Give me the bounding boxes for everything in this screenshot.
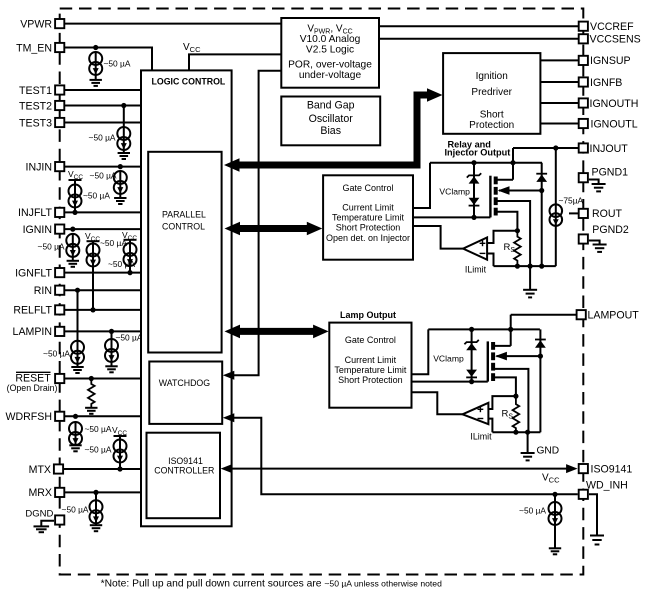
svg-text:(Open Drain): (Open Drain) xyxy=(7,383,58,393)
svg-text:VPWR: VPWR xyxy=(20,18,52,30)
transistor Q2 power MOSFET (lamp, with current-sense) xyxy=(487,341,489,381)
svg-text:VClamp: VClamp xyxy=(433,354,464,364)
svg-text:Short Protection: Short Protection xyxy=(336,223,401,233)
zener diode VClamp upper (lamp) xyxy=(471,329,473,381)
svg-text:RELFLT: RELFLT xyxy=(13,305,52,317)
svg-text:GND: GND xyxy=(537,446,560,457)
wire op-amp output feedback to Gate Control (lamp) xyxy=(412,392,463,414)
svg-text:ROUT: ROUT xyxy=(592,208,623,220)
pin RIN xyxy=(55,286,64,295)
svg-text:Current Limit: Current Limit xyxy=(345,355,397,365)
current source ~50uA (TEST2 pull-down) xyxy=(117,127,130,150)
svg-text:~50 µA: ~50 µA xyxy=(38,242,65,252)
wire TM_EN to LOGIC CONTROL top xyxy=(64,48,152,71)
pin LAMPIN xyxy=(55,327,64,336)
junction RELFLT pull-up xyxy=(90,307,95,312)
pin IGNFLT xyxy=(55,268,64,277)
junction source/ground (lamp) xyxy=(525,430,530,435)
wire IGNSUP xyxy=(540,59,578,61)
wire TEST2 xyxy=(64,105,141,107)
block ISO9141 CONTROLLER xyxy=(147,433,221,519)
svg-text:INJIN: INJIN xyxy=(26,161,52,173)
ground (TEST2 source) xyxy=(118,153,130,159)
junction body/diode (lamp) xyxy=(538,354,543,359)
op-amp ILimit comparator (lamp) xyxy=(463,403,489,424)
svg-text:Ignition: Ignition xyxy=(476,71,508,82)
ground (lamp output stage) xyxy=(521,453,535,460)
svg-text:Lamp Output: Lamp Output xyxy=(340,310,396,320)
svg-text:TEST2: TEST2 xyxy=(19,100,52,112)
pin VPWR xyxy=(55,19,64,28)
wire TEST1 xyxy=(64,89,141,91)
chip boundary (dashed border) xyxy=(60,9,584,575)
wire lamp Gate Control upper output to rail xyxy=(412,329,429,374)
svg-text:~50 µA: ~50 µA xyxy=(85,424,112,434)
wire IGNFLT xyxy=(64,272,149,274)
current source ~50uA (MTX pull-up) xyxy=(119,436,121,440)
junction WDRFSH pulldown xyxy=(73,414,78,419)
pin TEST3 xyxy=(55,118,64,127)
junction RESET pulldown xyxy=(89,376,94,381)
svg-text:~50 µA: ~50 µA xyxy=(89,133,116,143)
junction MRX pulldown xyxy=(93,490,98,495)
svg-text:Gate Control: Gate Control xyxy=(342,183,393,193)
svg-text:~50 µA: ~50 µA xyxy=(108,259,135,269)
wire LAMPIN xyxy=(64,330,149,332)
svg-text:TM_EN: TM_EN xyxy=(16,42,52,54)
svg-text:IGNSUP: IGNSUP xyxy=(590,55,631,67)
pin ROUT xyxy=(569,212,578,214)
wire op-amp + input to RS top (lamp) xyxy=(488,396,516,409)
svg-text:~50 µA: ~50 µA xyxy=(62,505,89,515)
svg-text:INJFLT: INJFLT xyxy=(18,207,52,219)
wire IGNIN xyxy=(64,228,149,230)
svg-text:ISO9141: ISO9141 xyxy=(591,463,633,475)
block Band Gap / Oscillator / Bias xyxy=(281,97,380,146)
thick arrow PARALLEL CONTROL to lamp Gate Control (bidirectional) xyxy=(238,328,315,335)
wire VCCREF xyxy=(379,25,578,27)
wire RESET xyxy=(64,378,149,380)
current source ~50uA (RELFLT pull-up) xyxy=(92,241,94,243)
wire TEST2 pulldown drop xyxy=(123,106,125,128)
wire lamp bottom rail xyxy=(492,431,540,433)
svg-text:Short: Short xyxy=(480,109,504,120)
svg-text:TEST1: TEST1 xyxy=(19,85,52,97)
svg-text:ILimit: ILimit xyxy=(465,265,487,275)
svg-text:WATCHDOG: WATCHDOG xyxy=(159,378,210,388)
svg-text:IGNFLT: IGNFLT xyxy=(15,267,52,279)
wire injector bottom rail xyxy=(494,265,556,267)
wire IGNOUTL xyxy=(540,123,578,125)
transistor Q1 power MOSFET (injector, with current-sense) xyxy=(489,176,491,218)
pin INJIN xyxy=(55,162,64,171)
wire DGND to ground xyxy=(41,521,54,526)
op-amp ILimit comparator (injector) xyxy=(463,238,487,260)
ground (WD_INH source) xyxy=(549,548,561,554)
arrow into WATCHDOG (bottom) xyxy=(223,413,235,422)
svg-text:CONTROLLER: CONTROLLER xyxy=(154,466,214,476)
svg-text:~50 µA: ~50 µA xyxy=(104,59,131,69)
ground (DGND) xyxy=(34,526,50,532)
junction lamp rail/LAMPOUT xyxy=(508,327,513,332)
ground (PGND1) xyxy=(589,180,599,185)
wire INJFLT xyxy=(64,211,149,213)
svg-text:Gate Control: Gate Control xyxy=(345,335,396,345)
current source ~50uA (IGNFLT pull-up) xyxy=(129,240,131,243)
current source ~50uA (RIN pull-down) xyxy=(71,341,84,364)
current source ~50uA (TM_EN pull-down) xyxy=(89,52,102,75)
pin PGND1 xyxy=(579,173,588,182)
wire gate drive (injector) xyxy=(413,216,490,218)
thick arrow PARALLEL CONTROL to injector Gate Control (bidirectional) xyxy=(238,225,308,232)
wire MRX xyxy=(64,491,147,493)
pin TM_EN xyxy=(55,43,64,52)
ground (WD_INH external) xyxy=(590,536,604,545)
junction diode leg xyxy=(539,264,544,269)
wire INJOUT xyxy=(513,147,578,149)
zener diode VClamp upper (injector) xyxy=(473,163,475,218)
current source ~50uA (WDRFSH pull-down) xyxy=(69,422,82,445)
current source ~50uA (LAMPIN pull-down) xyxy=(111,331,113,339)
wire ~75uA branch from INJOUT xyxy=(555,148,557,266)
current source ~50uA (WD_INH) xyxy=(554,494,556,502)
block Ignition Predriver xyxy=(443,53,540,134)
wire INJIN xyxy=(64,166,149,168)
svg-text:under-voltage: under-voltage xyxy=(299,70,362,81)
pin LAMPOUT xyxy=(577,310,586,319)
ground (RIN source) xyxy=(71,367,83,373)
svg-text:MRX: MRX xyxy=(28,487,52,499)
wire supply block to watchdog enable (down to WATCHDOG arrow) xyxy=(234,71,281,376)
ground (RESET resistor) xyxy=(85,408,97,414)
ground (MRX source) xyxy=(90,525,102,531)
svg-text:Bias: Bias xyxy=(320,125,341,137)
junction source/ground xyxy=(528,264,533,269)
wire TEST3 xyxy=(64,122,141,124)
pin WDRFSH xyxy=(55,412,64,421)
junction RS top xyxy=(515,228,520,233)
svg-text:V2.5 Logic: V2.5 Logic xyxy=(306,45,354,56)
svg-text:IGNOUTL: IGNOUTL xyxy=(591,118,638,130)
block Gate Control (lamp) xyxy=(329,323,411,408)
arrow into ISO9141 CONTROLLER xyxy=(221,464,233,473)
pin IGNIN xyxy=(55,225,64,234)
wire op-amp + input to RS top (injector) xyxy=(487,231,517,243)
junction INJOUT / 75uA branch xyxy=(553,145,558,150)
junction IGNFLT pull-up xyxy=(127,270,132,275)
pin PGND2 xyxy=(579,234,588,243)
resistor RS (lamp) xyxy=(513,396,520,432)
current source ~50uA (MRX pull-down) xyxy=(95,492,97,500)
ground (PGND2) xyxy=(589,241,600,245)
svg-text:IGNOUTH: IGNOUTH xyxy=(590,98,639,110)
wire source stub (lamp FET) xyxy=(493,369,528,432)
block WATCHDOG xyxy=(149,362,222,424)
wire IGNFB xyxy=(540,81,578,83)
wire VCCSENS xyxy=(379,38,578,40)
junction body/diode xyxy=(539,188,544,193)
diode VClamp lower (injector) xyxy=(469,198,480,205)
wire to lamp ground xyxy=(527,432,529,453)
svg-text:WD_INH: WD_INH xyxy=(586,480,628,492)
svg-text:LAMPIN: LAMPIN xyxy=(13,326,52,338)
wire Gate Control upper output to rail xyxy=(413,163,430,208)
wire drain stub (lamp FET) xyxy=(493,345,511,347)
wire LAMPOUT drop to drain xyxy=(510,315,512,346)
svg-text:~50 µA: ~50 µA xyxy=(43,349,70,359)
wire source stub (injector FET) xyxy=(496,201,530,266)
svg-text:LOGIC CONTROL: LOGIC CONTROL xyxy=(152,77,226,87)
svg-text:DGND: DGND xyxy=(25,508,53,519)
pin MTX xyxy=(54,464,63,473)
junction RIN pulldown xyxy=(75,288,80,293)
junction rail/VClamp xyxy=(471,160,476,165)
wire IGNOUTH xyxy=(540,102,578,104)
wire to injector ground xyxy=(529,266,531,290)
flyback diode (lamp) xyxy=(539,329,541,432)
svg-text:Predriver: Predriver xyxy=(471,87,512,98)
svg-text:Current Limit: Current Limit xyxy=(342,202,394,212)
ground (IGNIN source) xyxy=(67,261,79,267)
block PARALLEL CONTROL xyxy=(148,152,221,353)
wire sense stub (lamp FET) xyxy=(493,377,516,396)
svg-text:WDRFSH: WDRFSH xyxy=(6,411,53,423)
junction TM_EN pulldown xyxy=(93,45,98,50)
junction VClamp/gate wire xyxy=(471,215,476,220)
wire op-amp - input to sense rail (injector) xyxy=(487,254,493,267)
wire op-amp - input to sense rail (lamp) xyxy=(488,419,492,433)
svg-text:Band Gap: Band Gap xyxy=(307,99,355,111)
current source ~50uA (IGNIN pull-down) xyxy=(66,234,79,257)
junction RS bottom xyxy=(515,264,520,269)
flyback diode (injector) xyxy=(541,163,543,266)
svg-text:Short Protection: Short Protection xyxy=(338,375,403,385)
pin IGNSUP xyxy=(579,56,588,65)
svg-text:POR, over-voltage: POR, over-voltage xyxy=(288,60,372,71)
svg-text:ILimit: ILimit xyxy=(470,432,492,442)
pin TEST1 xyxy=(55,85,64,94)
pin RESET (active low, open drain) xyxy=(55,374,64,383)
wire LAMPOUT xyxy=(511,314,577,316)
ground (injector output stage) xyxy=(523,290,537,298)
svg-text:PGND1: PGND1 xyxy=(592,167,629,179)
junction INJIN pulldown xyxy=(118,164,123,169)
ground (LAMPIN source) xyxy=(105,366,117,372)
wire WD_INH external pull-down to ground xyxy=(589,494,597,535)
junction TEST2 pulldown xyxy=(121,103,126,108)
svg-text:~50 µA: ~50 µA xyxy=(83,191,110,201)
svg-text:ISO9141: ISO9141 xyxy=(168,456,203,466)
current source ~50uA (INJFLT pull-up) xyxy=(74,180,76,185)
svg-text:~50 µA: ~50 µA xyxy=(90,171,117,181)
resistor RS (injector) xyxy=(514,231,521,266)
block Gate Control (injector) xyxy=(323,175,413,259)
svg-text:V10.0 Analog: V10.0 Analog xyxy=(300,34,361,45)
block VPWR/VCC supply, POR xyxy=(281,18,379,88)
junction rail/INJOUT xyxy=(510,160,515,165)
pin IGNFB xyxy=(579,77,588,86)
svg-text:IGNIN: IGNIN xyxy=(23,224,52,236)
svg-text:PGND2: PGND2 xyxy=(592,224,629,236)
wire sense stub (injector FET) xyxy=(496,212,518,231)
svg-text:VCCREF: VCCREF xyxy=(590,21,634,33)
svg-text:VClamp: VClamp xyxy=(439,187,470,197)
svg-text:~50 µA: ~50 µA xyxy=(519,506,546,516)
pin RELFLT xyxy=(55,305,64,314)
wire op-amp output feedback to Gate Control (injector) xyxy=(413,226,463,249)
junction WD_INH internal source xyxy=(552,492,557,497)
junction lamp rail/VClamp xyxy=(469,327,474,332)
svg-text:LAMPOUT: LAMPOUT xyxy=(588,310,640,322)
current source ~75uA (ROUT) xyxy=(550,204,563,217)
arrow into ISO9141 pin xyxy=(566,464,578,473)
svg-text:TEST3: TEST3 xyxy=(19,117,52,129)
junction MTX pull-up xyxy=(117,466,122,471)
pin INJFLT xyxy=(55,208,64,217)
wire VCC from supply block into LOGIC CONTROL xyxy=(189,54,281,70)
svg-text:Open det. on Injector: Open det. on Injector xyxy=(326,233,410,243)
pin MRX xyxy=(55,488,64,497)
junction RS top (lamp) xyxy=(513,394,518,399)
svg-text:*Note: Pull up and pull down c: *Note: Pull up and pull down current sou… xyxy=(101,579,442,590)
svg-text:INJOUT: INJOUT xyxy=(590,143,629,155)
junction VClamp/gate wire (lamp) xyxy=(469,379,474,384)
wire body connection with arrow (lamp FET) xyxy=(496,355,540,357)
svg-text:Temperature Limit: Temperature Limit xyxy=(334,365,407,375)
diode VClamp lower (lamp) xyxy=(466,370,477,377)
junction IGNIN pulldown xyxy=(70,227,75,232)
wire WD_INH to WATCHDOG xyxy=(234,418,578,495)
svg-text:Protection: Protection xyxy=(469,120,514,131)
junction RS bottom (lamp) xyxy=(513,430,518,435)
wire injector top rail xyxy=(430,162,542,164)
pin TEST2 xyxy=(55,101,64,110)
wire VPWR to supply block xyxy=(64,23,281,25)
pin VCCREF xyxy=(579,22,588,31)
pin DGND xyxy=(55,515,64,524)
ground (WDRFSH source) xyxy=(69,445,81,451)
svg-text:Temperature Limit: Temperature Limit xyxy=(332,213,405,223)
wire WDRFSH xyxy=(64,415,149,417)
svg-text:~50 µA: ~50 µA xyxy=(85,445,112,455)
wire RIN pulldown drop xyxy=(77,290,79,341)
thick arrow PARALLEL CONTROL to Ignition Predriver xyxy=(237,95,428,165)
ground (INJIN source) xyxy=(114,198,126,204)
resistor (RESET pull-down) xyxy=(88,379,95,408)
svg-text:Injector Output: Injector Output xyxy=(445,147,511,157)
wire gate drive (lamp) xyxy=(412,381,488,383)
svg-text:IGNFB: IGNFB xyxy=(590,77,622,89)
svg-text:~75µA: ~75µA xyxy=(559,196,584,206)
wire body connection with arrow (injector FET) xyxy=(499,190,542,192)
pin VCCSENS xyxy=(579,34,588,43)
wire lamp top rail xyxy=(428,328,540,330)
pin IGNOUTL xyxy=(579,119,588,128)
svg-text:PARALLEL: PARALLEL xyxy=(162,210,206,220)
junction INJFLT pull-up xyxy=(72,210,77,215)
wire RELFLT xyxy=(64,309,149,311)
block LOGIC CONTROL xyxy=(141,70,232,526)
svg-text:Oscillator: Oscillator xyxy=(309,113,354,125)
ground (TM_EN source) xyxy=(90,80,102,86)
pin INJOUT xyxy=(579,143,588,152)
pin IGNOUTH xyxy=(579,98,588,107)
arrow into WATCHDOG (top) xyxy=(223,371,235,380)
svg-text:VCCSENS: VCCSENS xyxy=(590,34,641,46)
svg-text:MTX: MTX xyxy=(29,464,51,476)
junction LAMPIN pulldown xyxy=(109,329,114,334)
svg-text:~50 µA: ~50 µA xyxy=(116,333,143,343)
wire INJOUT drop to drain rail xyxy=(512,148,514,180)
wire MTX xyxy=(63,468,147,470)
svg-text:RIN: RIN xyxy=(34,285,52,297)
wire RIN xyxy=(64,289,149,291)
pin ISO9141 xyxy=(579,464,588,473)
wire ISO9141 bidirectional line xyxy=(232,468,567,470)
svg-text:CONTROL: CONTROL xyxy=(162,222,205,232)
wire drain stub (injector FET) xyxy=(496,179,513,181)
current source ~50uA (INJIN pull-down) xyxy=(114,171,127,194)
